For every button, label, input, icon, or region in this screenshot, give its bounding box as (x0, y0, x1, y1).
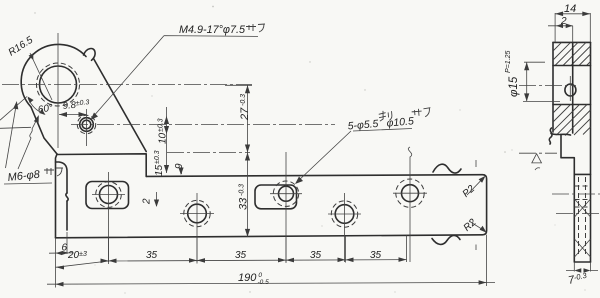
svg-text:P=1.25: P=1.25 (505, 51, 512, 73)
left step inner edge (56, 162, 68, 193)
callout M6 sara glyph (44, 168, 63, 176)
svg-text:33: 33 (238, 197, 250, 210)
svg-text:M6-φ8: M6-φ8 (7, 169, 41, 184)
R16.5 label (7, 35, 36, 59)
R2 top leader (467, 178, 484, 195)
svg-text:M4.9-17°φ7.5: M4.9-17°φ7.5 (179, 24, 246, 36)
inner edge lower (66, 201, 68, 230)
bottom extension lines (56, 232, 487, 288)
svg-text:6: 6 (62, 243, 68, 254)
R2 bottom leader (469, 221, 485, 231)
svg-text:1900-0.5: 1900-0.5 (238, 272, 269, 286)
side view strip hidden holes (579, 177, 586, 257)
side view centerline (519, 85, 576, 87)
boss horizontal centerline (2, 84, 252, 86)
ledge edge (56, 154, 147, 238)
slot 1 (86, 182, 129, 209)
svg-text:27: 27 (239, 107, 251, 121)
svg-text:±0.3: ±0.3 (154, 150, 161, 164)
small hole dashed circle (77, 115, 95, 133)
side view ellipse hole (565, 84, 576, 96)
small hole (80, 118, 94, 132)
callout M6 underline (4, 183, 52, 184)
side view hatch A (553, 42, 591, 65)
side view top edge (553, 41, 591, 43)
dim 33 line (247, 153, 249, 237)
side view hatch B (553, 105, 591, 136)
svg-text:P2: P2 (461, 183, 478, 200)
dim 27 label (239, 94, 251, 121)
dim 33 label (238, 184, 250, 210)
small hole vertical centerline (86, 109, 88, 146)
side view line y62 (553, 65, 591, 67)
bottom edge break squiggle (432, 235, 460, 244)
boss outer arc (21, 44, 86, 107)
svg-text:φ10.5: φ10.5 (386, 115, 414, 129)
side view strip top hidden line (574, 173, 590, 175)
mark under triangle (535, 168, 540, 170)
reference centerline mid (167, 152, 250, 154)
kiri glyph (378, 110, 392, 121)
dim 27 line (225, 85, 252, 152)
R2 bottom label (462, 217, 479, 234)
right end extension marks (475, 160, 477, 250)
side view left break squiggle (549, 128, 552, 144)
svg-text:35: 35 (310, 250, 322, 261)
svg-text:14: 14 (564, 3, 576, 15)
surface finish triangle (532, 154, 542, 163)
side view right edge (590, 42, 592, 262)
side view step (561, 135, 591, 262)
svg-text:-0.3: -0.3 (240, 94, 247, 106)
taper edge (94, 59, 147, 152)
side view row centerlines (552, 193, 600, 195)
hole H3 (279, 186, 294, 201)
angle 60 arc (28, 98, 44, 114)
callout 5-5.5 underline and leader (297, 129, 412, 183)
callout M4.9 sara glyph (246, 24, 265, 32)
boss lower-left outline (31, 107, 57, 154)
callout M6 leader B (18, 117, 38, 169)
R16.5 leader (30, 53, 52, 100)
side view left edge (552, 42, 554, 132)
svg-text:2: 2 (560, 16, 567, 27)
callout M6 leader A (6, 103, 17, 168)
svg-text:9.8±0.3: 9.8±0.3 (62, 99, 90, 112)
dim phi15 label (505, 51, 520, 97)
dim 7 (side bottom) (566, 262, 598, 272)
dim 9 label (174, 163, 185, 169)
svg-text:15: 15 (154, 164, 165, 176)
svg-text:35: 35 (146, 250, 158, 261)
svg-text:7-0.3: 7-0.3 (567, 271, 589, 287)
boss vertical centerline (57, 33, 59, 148)
hole H1 (100, 186, 118, 204)
angle 60 label (37, 102, 54, 115)
side view inner edge line (572, 42, 574, 133)
svg-text:2: 2 (142, 198, 153, 205)
svg-text:±0.3: ±0.3 (158, 118, 165, 132)
angle 60 wedge lines (0, 97, 31, 129)
slot 3 (255, 185, 297, 209)
svg-text:10: 10 (158, 132, 169, 144)
R2 top label (461, 183, 478, 200)
sara glyph (411, 108, 431, 118)
dim 9.8 arrows (59, 114, 87, 116)
svg-text:35: 35 (235, 250, 247, 261)
top edge break squiggle (433, 164, 461, 173)
dim 190 line (47, 282, 495, 284)
callout M4.9 underline and leader (92, 36, 258, 118)
dim 10 label (158, 118, 169, 144)
svg-text:60°: 60° (37, 102, 54, 115)
bore circle (40, 66, 77, 103)
side view countersink X2 (575, 239, 591, 257)
svg-text:20±3: 20±3 (67, 250, 87, 261)
side view countersink X1 (575, 199, 591, 217)
dim 2 label (142, 198, 153, 205)
bar outline (56, 175, 487, 238)
hole H5 centerline wave (408, 147, 411, 170)
dim 15 label (154, 150, 165, 176)
bore thread dashed circle (37, 63, 80, 106)
svg-text:-0.3: -0.3 (239, 184, 246, 196)
dim stack line (166, 107, 168, 173)
small hole horizontal centerline (71, 124, 335, 126)
dim row 1 line (56, 260, 407, 268)
dim 14 (555, 13, 590, 42)
callout 5-5.5 (347, 107, 432, 133)
side view break line bottom of block (551, 134, 571, 136)
svg-text:35: 35 (370, 250, 382, 261)
side view line y101 (553, 104, 591, 106)
dim row 1 arrows (56, 266, 64, 270)
reference centerline right (519, 152, 557, 154)
dim phi15 (523, 62, 560, 101)
boss top tab (84, 49, 96, 61)
inner edge break squiggle (66, 193, 68, 201)
dim 6 (49, 252, 73, 254)
svg-text:φ15: φ15 (508, 76, 520, 97)
hole H4 (335, 205, 354, 224)
hole H2 (188, 204, 207, 223)
dim 2 (side) (548, 26, 573, 43)
hole H5 (402, 185, 419, 202)
